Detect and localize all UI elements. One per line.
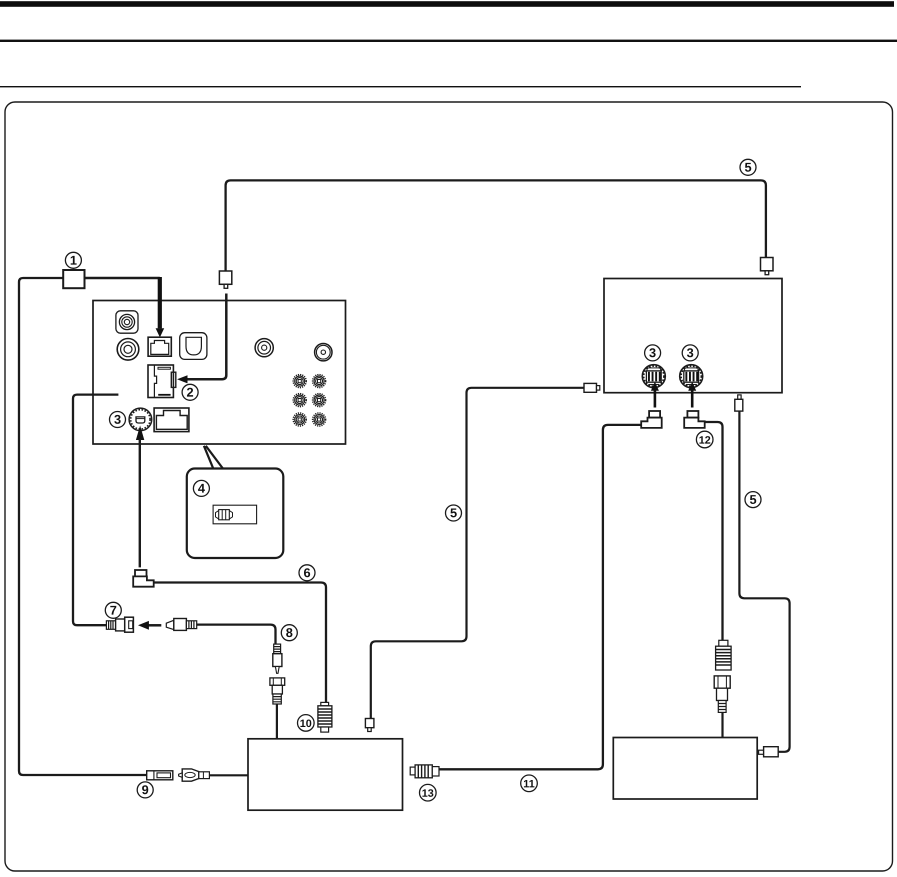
- tuner box 2: [613, 738, 757, 800]
- elbow plug below left DIN: [641, 411, 662, 428]
- head unit rear panel box: [93, 301, 346, 445]
- tuner box 1: [248, 739, 403, 810]
- optical jack: [180, 333, 207, 360]
- svg-text:3: 3: [114, 412, 121, 427]
- circled 5 top: [740, 159, 756, 175]
- connector above tuner box 1: [365, 719, 374, 728]
- monitor DIN jack right: [680, 365, 703, 388]
- antenna plug 8: [166, 619, 196, 631]
- wide jack next to mini-DIN: [154, 408, 189, 432]
- svg-text:3: 3: [687, 345, 694, 360]
- monitor box: [604, 279, 782, 393]
- circled 13: [420, 784, 437, 801]
- circled 5 left branch: [446, 505, 462, 521]
- callout pointer: [204, 446, 223, 469]
- connector 13: [410, 765, 439, 778]
- fuse icon in callout: [213, 505, 257, 524]
- arrow up into mini-DIN: [136, 426, 144, 441]
- circled 4: [193, 480, 209, 496]
- top header bar: [0, 1, 894, 7]
- circled 11: [521, 775, 538, 792]
- circled 10: [298, 715, 315, 732]
- connector below monitor: [738, 395, 741, 399]
- svg-text:1: 1: [70, 253, 77, 268]
- circled 8: [281, 625, 297, 641]
- spade connector male (9): [179, 769, 210, 781]
- svg-text:6: 6: [303, 565, 310, 580]
- svg-text:4: 4: [198, 481, 206, 496]
- svg-text:11: 11: [523, 778, 534, 790]
- connector on wire 5 left end: [219, 271, 231, 284]
- plug 1 square: [63, 270, 84, 288]
- long wire 5 across top: [226, 180, 766, 271]
- wire male spade to tuner box 1: [209, 774, 248, 776]
- wire 12 from right elbow down to tuner box 2: [705, 422, 723, 640]
- circled 2: [182, 384, 198, 400]
- arrowhead into RJ45: [156, 328, 165, 337]
- wire from mini-DIN arrow down to elbow 6: [139, 439, 141, 567]
- elbow plug 6: [133, 570, 154, 587]
- mini-DIN jack head unit: [129, 408, 152, 431]
- connector 10 (ribbed DIN plug): [318, 702, 332, 732]
- header rule 2: [0, 40, 897, 42]
- callout box 4: [187, 469, 283, 559]
- wire into tuner box 2 top: [721, 712, 723, 737]
- RJ45 jack: [148, 337, 171, 356]
- mating socket below on wire 12: [714, 676, 730, 713]
- arrow up into right DIN: [691, 390, 694, 408]
- circled 3 head unit: [110, 412, 126, 428]
- circled 7: [105, 602, 121, 618]
- circled 3 monitor right: [682, 345, 698, 361]
- center RCA jack: [255, 339, 273, 357]
- svg-text:5: 5: [749, 492, 756, 507]
- wire 11 from left elbow to tuner box 1: [439, 425, 641, 769]
- wire 5 left branch: monitor to tuner box 1: [371, 388, 584, 719]
- arrow shaft into RJ45: [158, 277, 162, 328]
- wire RCA female into tuner box 1: [276, 704, 278, 739]
- wire from plug 1 to RJ45 jack: [85, 277, 160, 280]
- monitor DIN jack left: [642, 365, 665, 388]
- RCA plug male (below 8): [273, 644, 282, 673]
- wire 5 right branch: monitor bottom to tuner box 2: [739, 411, 789, 752]
- arrow from plug 8 to socket 7: [149, 624, 162, 627]
- svg-text:2: 2: [187, 385, 194, 400]
- RCA jack upper-left: [117, 339, 139, 361]
- connector at tuner box 2 right: [759, 750, 764, 754]
- circled 6: [299, 565, 315, 581]
- circled 5 right branch: [745, 492, 761, 508]
- header rule 3: [0, 86, 801, 87]
- svg-text:9: 9: [142, 782, 149, 797]
- antenna wire to connector 7: [73, 395, 118, 626]
- GPS jack: [116, 311, 138, 333]
- right RCA jack: [315, 344, 332, 361]
- svg-text:12: 12: [699, 435, 711, 447]
- svg-text:5: 5: [450, 505, 457, 520]
- circled 3 monitor left: [645, 345, 661, 361]
- wire into connector 2: [187, 294, 226, 380]
- circled 12: [696, 431, 713, 448]
- ribbed DIN plug on wire 12: [716, 640, 732, 670]
- connector 2 receptacle: [148, 365, 176, 398]
- svg-text:3: 3: [649, 345, 656, 360]
- elbow plug below right DIN (12): [684, 411, 705, 428]
- connector at monitor left: [584, 383, 597, 392]
- svg-text:8: 8: [286, 625, 293, 640]
- svg-text:10: 10: [300, 718, 312, 730]
- arrow up into left DIN: [654, 390, 657, 408]
- wire 8 to RCA plug: [197, 625, 276, 644]
- antenna socket connector 7: [106, 617, 133, 632]
- svg-text:7: 7: [110, 603, 117, 618]
- svg-text:5: 5: [744, 160, 751, 175]
- RCA jack female (above tuner box 1): [270, 678, 285, 704]
- arrowhead into connector 2: [177, 375, 187, 383]
- RCA output grid (6 jacks): [293, 375, 306, 388]
- wire 6 from elbow to connector 10: [154, 583, 326, 703]
- wire from plug 1 to left and down to connectors 9: [19, 278, 147, 775]
- circled 9: [137, 782, 153, 798]
- spade connector female (9): [147, 771, 173, 780]
- svg-text:13: 13: [422, 788, 434, 800]
- connector on wire 5 right end: [761, 258, 774, 271]
- circled 1: [65, 252, 81, 268]
